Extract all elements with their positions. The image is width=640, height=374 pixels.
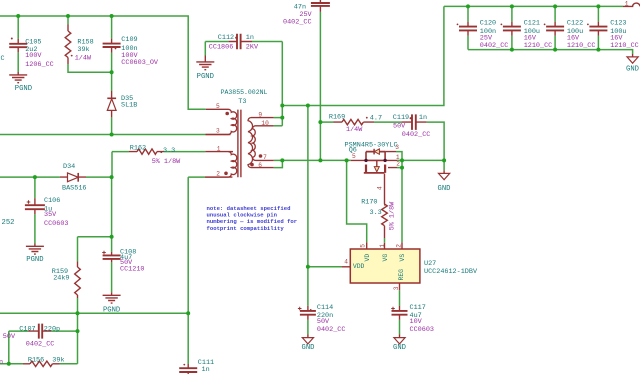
svg-text:PGND: PGND	[26, 256, 43, 264]
svg-text:39k: 39k	[52, 356, 64, 364]
svg-text:10: 10	[261, 120, 269, 127]
svg-text:C123: C123	[610, 19, 626, 27]
svg-text:5: 5	[216, 103, 220, 110]
svg-text:VD: VD	[364, 254, 371, 262]
svg-text:5: 5	[359, 244, 366, 248]
svg-text:0402_CC: 0402_CC	[402, 131, 431, 139]
svg-text:C121: C121	[524, 19, 540, 27]
svg-text:50V: 50V	[393, 123, 406, 131]
svg-text:50V: 50V	[3, 333, 16, 341]
svg-text:50V: 50V	[317, 318, 330, 326]
svg-text:CC0603_OV: CC0603_OV	[121, 59, 159, 67]
svg-text:5% 1/8W: 5% 1/8W	[152, 158, 181, 166]
svg-text:2: 2	[396, 160, 400, 167]
svg-text:C114: C114	[317, 304, 333, 312]
svg-text:CC0603: CC0603	[44, 220, 68, 228]
svg-text:PGND: PGND	[15, 85, 32, 93]
svg-text:GND: GND	[302, 344, 315, 352]
svg-text:1: 1	[625, 0, 629, 7]
svg-text:3.3: 3.3	[370, 209, 382, 217]
svg-text:9: 9	[258, 111, 262, 118]
svg-text:1n: 1n	[246, 34, 254, 42]
svg-text:n: n	[0, 359, 3, 367]
svg-text:R162: R162	[130, 144, 146, 152]
svg-text:C119: C119	[393, 114, 409, 122]
svg-text:1206_CC: 1206_CC	[25, 61, 54, 69]
svg-text:GND: GND	[393, 344, 406, 352]
svg-text:PGND: PGND	[197, 73, 214, 81]
svg-text:4: 4	[344, 258, 348, 265]
svg-text:2: 2	[396, 244, 403, 248]
svg-text:5% 1/8W: 5% 1/8W	[389, 201, 397, 230]
svg-text:VDD: VDD	[353, 263, 365, 270]
svg-text:UCC24612-1DBV: UCC24612-1DBV	[424, 268, 478, 276]
svg-text:220p: 220p	[44, 325, 60, 333]
svg-text:3: 3	[395, 144, 399, 151]
svg-text:PGND: PGND	[103, 307, 120, 315]
svg-text:PA3855.002NL: PA3855.002NL	[221, 89, 268, 96]
svg-text:BAS516: BAS516	[62, 185, 86, 193]
svg-text:VS: VS	[399, 254, 406, 262]
svg-text:3: 3	[216, 128, 220, 135]
svg-text:T3: T3	[238, 98, 246, 106]
svg-text:U27: U27	[424, 260, 436, 268]
svg-text:SL1B: SL1B	[121, 102, 137, 110]
svg-text:1n: 1n	[202, 366, 210, 374]
svg-text:252: 252	[2, 219, 15, 227]
svg-text:footprint compatibility: footprint compatibility	[207, 225, 285, 232]
svg-text:39k: 39k	[77, 46, 89, 54]
svg-text:C106: C106	[44, 197, 60, 205]
svg-text:3: 3	[393, 286, 400, 290]
svg-text:D34: D34	[63, 163, 75, 171]
svg-text:2: 2	[216, 170, 220, 177]
svg-text:0402_CC: 0402_CC	[283, 18, 312, 26]
svg-text:1/4W: 1/4W	[75, 55, 92, 63]
svg-text:35V: 35V	[44, 211, 57, 219]
svg-text:CC0603: CC0603	[410, 326, 434, 334]
svg-text:R156: R156	[28, 356, 44, 364]
svg-text:3.3: 3.3	[163, 147, 175, 155]
svg-text:GND: GND	[626, 66, 639, 74]
svg-text:C: C	[1, 55, 5, 63]
svg-text:10V: 10V	[410, 318, 423, 326]
svg-text:7: 7	[263, 154, 267, 161]
svg-text:1210_CC: 1210_CC	[524, 42, 553, 50]
svg-text:5: 5	[352, 153, 356, 160]
svg-text:C120: C120	[480, 19, 496, 27]
svg-text:C107: C107	[19, 325, 35, 333]
svg-text:100V: 100V	[25, 52, 42, 60]
svg-text:C109: C109	[121, 36, 137, 44]
svg-text:C117: C117	[410, 304, 426, 312]
svg-text:4: 4	[376, 186, 383, 190]
svg-text:2KV: 2KV	[246, 44, 259, 52]
svg-text:0402_CC: 0402_CC	[480, 42, 509, 50]
svg-text:4.7: 4.7	[370, 115, 382, 123]
svg-text:1: 1	[379, 244, 386, 248]
svg-text:0402_CC: 0402_CC	[317, 326, 346, 334]
svg-text:R169: R169	[329, 114, 345, 122]
svg-text:1/4W: 1/4W	[346, 126, 363, 134]
svg-text:1210_CC: 1210_CC	[610, 42, 639, 50]
svg-text:REG: REG	[398, 269, 405, 281]
svg-text:24k9: 24k9	[53, 275, 69, 283]
svg-text:1210_CC: 1210_CC	[567, 42, 596, 50]
svg-text:C112: C112	[218, 34, 234, 42]
svg-text:CC1806: CC1806	[209, 44, 233, 52]
svg-text:R170: R170	[361, 198, 377, 206]
svg-text:GND: GND	[438, 185, 451, 193]
svg-text:C122: C122	[567, 19, 583, 27]
svg-text:CC1210: CC1210	[120, 266, 144, 274]
svg-text:1: 1	[217, 146, 221, 153]
svg-text:VG: VG	[382, 254, 389, 262]
svg-text:1n: 1n	[419, 114, 427, 122]
svg-text:0402_CC: 0402_CC	[26, 340, 55, 348]
svg-text:6: 6	[258, 162, 262, 169]
